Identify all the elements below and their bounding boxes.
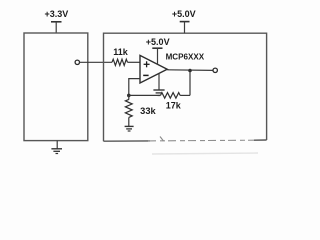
resistor 11k bbox=[112, 47, 140, 66]
supply +3.3V bbox=[45, 9, 69, 33]
svg-text:+5.0V: +5.0V bbox=[172, 9, 196, 19]
op-amp U1 MCP6XXX bbox=[140, 53, 205, 83]
node (feedback junction) bbox=[127, 94, 131, 98]
right box (5.0V ADC block) bbox=[104, 33, 267, 154]
svg-text:11k: 11k bbox=[113, 47, 129, 57]
supply +5.0V (outer, top of right box) bbox=[172, 9, 196, 33]
svg-text:33k: 33k bbox=[140, 106, 157, 116]
wire (inverting input) bbox=[129, 79, 140, 96]
supply +5.0V (op-amp pin) bbox=[146, 37, 170, 64]
svg-text:17k: 17k bbox=[166, 101, 182, 111]
left box (3.3V battery block) bbox=[24, 33, 88, 141]
wire (feedback, node to 17k) bbox=[129, 94, 161, 96]
resistor 33k bbox=[125, 95, 156, 126]
svg-text:+5.0V: +5.0V bbox=[146, 37, 170, 47]
node (output junction) bbox=[188, 69, 192, 73]
terminal (left box output) bbox=[75, 60, 79, 64]
svg-text:+3.3V: +3.3V bbox=[45, 9, 69, 19]
wire (17k up to output) bbox=[189, 71, 191, 96]
wire (op-amp output) bbox=[167, 69, 213, 72]
ground (left box) bbox=[51, 141, 62, 154]
ground (op-amp pin) bbox=[153, 74, 164, 96]
ground (33k) bbox=[125, 126, 134, 131]
resistor 17k bbox=[161, 93, 191, 111]
terminal (op-amp output) bbox=[213, 68, 217, 72]
svg-text:MCP6XXX: MCP6XXX bbox=[166, 53, 205, 62]
wire (terminal to 11k resistor) bbox=[80, 61, 112, 63]
